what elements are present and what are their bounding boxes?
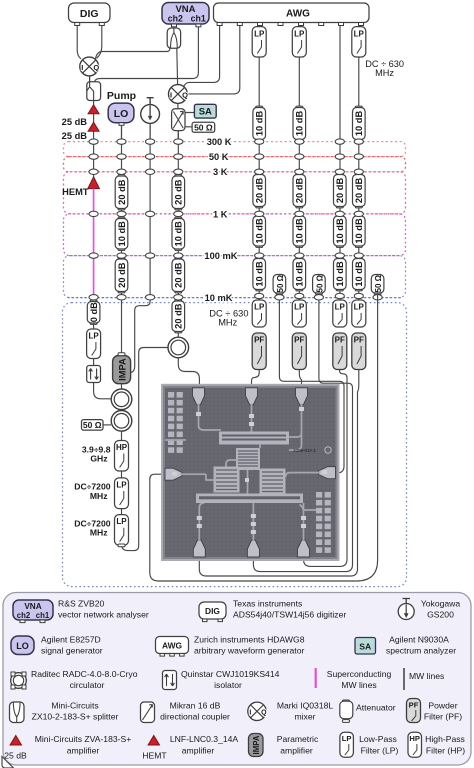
svg-text:GHz: GHz — [90, 454, 107, 464]
feedthrough stub x378 — [373, 295, 382, 300]
svg-text:20 dB: 20 dB — [174, 179, 184, 205]
svg-text:20 dB: 20 dB — [295, 178, 305, 204]
AWG box — [214, 3, 370, 26]
wire LP to isolator — [93, 359, 95, 366]
attenuator 10 dB x178 — [172, 217, 185, 250]
splitter S1 under VNA ch2 — [167, 28, 180, 48]
attenuator 10 dB x359 — [353, 257, 366, 291]
svg-text:50 K: 50 K — [209, 152, 229, 162]
wire LO to pump line — [121, 125, 123, 142]
SECTION: legend — [2, 593, 471, 768]
chip junction marks — [172, 407, 327, 534]
svg-text:10 dB: 10 dB — [174, 221, 184, 247]
wire VNA ch1 to splitter S2 right prong — [95, 26, 199, 82]
svg-text:LP: LP — [254, 303, 265, 312]
wire AWG foot1 to mixer M2 upper-right — [184, 26, 220, 88]
svg-text:MHz: MHz — [90, 528, 108, 538]
svg-text:PF: PF — [354, 336, 364, 345]
svg-text:10 dB: 10 dB — [255, 111, 265, 137]
amplifier A1 25 dB — [88, 105, 99, 114]
svg-text:100 mK: 100 mK — [204, 251, 237, 261]
svg-text:LO: LO — [16, 641, 29, 651]
svg-text:50 Ω: 50 Ω — [276, 274, 285, 292]
legend VNA icon — [13, 600, 53, 623]
legend IMPA icon — [249, 734, 264, 757]
wire PF c2 to top launcher t3 — [299, 370, 301, 389]
svg-text:10 dB: 10 dB — [335, 218, 345, 244]
svg-text:MHz: MHz — [375, 68, 394, 78]
wire AWG line c4 — [359, 26, 360, 301]
feedthroughs x122 — [117, 139, 126, 300]
svg-text:20 dB: 20 dB — [174, 262, 184, 288]
svg-text:50 Ω: 50 Ω — [83, 420, 102, 430]
chip launcher bottom b3 — [297, 540, 309, 557]
svg-text:50 Ω: 50 Ω — [374, 274, 383, 292]
svg-text:20 dB: 20 dB — [255, 178, 265, 204]
wire circulator C3 bottom to chip top launcher t1 — [178, 358, 199, 389]
attenuator 20 dB x122 — [115, 175, 128, 210]
svg-text:20 dB: 20 dB — [117, 262, 127, 288]
legend AWG icon — [156, 637, 189, 657]
legend HP icon — [408, 732, 422, 757]
SECTION: top instruments — [62, 3, 369, 142]
stage box 3K-1K — [64, 172, 406, 214]
svg-text:I: I — [170, 91, 172, 100]
mixer M2 (VNA IQ mixer) — [169, 85, 189, 104]
legend LP icon — [340, 732, 354, 757]
mixer M1 (DIG IQ mixer) — [80, 57, 100, 76]
svg-text:AWG: AWG — [162, 641, 182, 651]
svg-text:HP: HP — [116, 443, 128, 452]
legend mixer icon — [248, 702, 267, 720]
svg-text:I: I — [249, 710, 251, 717]
wire AWG line c1 — [258, 26, 260, 301]
chip launcher top t1 — [193, 388, 205, 405]
svg-text:Raditec RADC-4.0-8.0-Cryo: Raditec RADC-4.0-8.0-Cryo — [31, 669, 138, 679]
chip pad array top-left — [168, 392, 183, 453]
svg-text:25 dB: 25 dB — [62, 131, 88, 141]
svg-text:25 dB: 25 dB — [4, 751, 27, 761]
svg-text:VNA: VNA — [24, 602, 41, 611]
svg-text:MW lines: MW lines — [341, 680, 376, 690]
stage line 10 mK plate — [68, 297, 401, 299]
svg-text:amplifier: amplifier — [182, 746, 215, 756]
SECTION: columns — [62, 26, 404, 577]
svg-text:10 dB: 10 dB — [117, 221, 127, 247]
terminator 50 ohm x279 — [273, 274, 286, 294]
svg-text:LP: LP — [335, 303, 346, 312]
feedthrough stub x319 — [314, 295, 323, 300]
filter LP cold c1 — [252, 300, 266, 327]
svg-text:ch1: ch1 — [36, 611, 50, 620]
VNA box — [162, 3, 209, 27]
stage box 1K-100mK — [64, 214, 406, 256]
svg-text:10 dB: 10 dB — [295, 111, 305, 137]
svg-text:LNF-LNC0.3_14A: LNF-LNC0.3_14A — [170, 734, 239, 744]
legend isolator icon — [163, 671, 177, 690]
svg-text:3 K: 3 K — [213, 167, 228, 177]
IMPA parametric amplifier — [113, 353, 131, 384]
chip resonator bar — [219, 432, 289, 445]
svg-text:10 dB: 10 dB — [354, 261, 364, 287]
svg-text:Attenuator: Attenuator — [356, 703, 396, 713]
amplifier A2 25 dB — [88, 122, 99, 131]
svg-text:spectrum analyzer: spectrum analyzer — [386, 646, 456, 656]
svg-text:10 dB: 10 dB — [335, 261, 345, 287]
legend corner arrow — [2, 757, 14, 768]
svg-text:LP: LP — [254, 29, 265, 38]
svg-text:signal generator: signal generator — [41, 646, 103, 656]
svg-text:LP: LP — [88, 332, 99, 341]
wire AWG line c3 — [339, 26, 341, 301]
legend amplifier icon ZVA — [10, 736, 21, 746]
svg-text:directional coupler: directional coupler — [160, 712, 230, 722]
legend DIG icon — [199, 602, 226, 622]
svg-text:0 dB: 0 dB — [89, 302, 99, 322]
svg-text:LP: LP — [294, 303, 305, 312]
circulator C3 input line — [168, 337, 189, 358]
attenuator 10 dB x359 — [353, 215, 366, 248]
legend splitter icon — [10, 702, 25, 723]
svg-text:ch1: ch1 — [191, 14, 206, 24]
chip pad array bottom-right — [316, 492, 331, 553]
svg-text:MW lines: MW lines — [409, 671, 444, 681]
wire AWG line c2 — [298, 26, 300, 301]
svg-text:Pump: Pump — [107, 90, 136, 102]
svg-text:mixer: mixer — [294, 712, 315, 722]
svg-text:MHz: MHz — [90, 491, 108, 501]
svg-text:Marki IQ0318L: Marki IQ0318L — [277, 701, 334, 711]
wire splitter S2 to amplifier A1 — [93, 101, 95, 107]
svg-text:Powder: Powder — [428, 701, 457, 711]
svg-text:Q: Q — [182, 91, 188, 100]
chip launcher right — [319, 467, 336, 479]
chip launcher left — [165, 468, 182, 480]
svg-text:LP: LP — [116, 517, 127, 526]
SECTION: temperature stage boxes — [63, 142, 407, 587]
SECTION: cold stage components — [74, 293, 377, 581]
svg-text:Mini-Circuits: Mini-Circuits — [51, 701, 98, 711]
attenuator 20 dB x122 — [115, 258, 128, 293]
attenuator 0 dB x94 — [87, 300, 100, 324]
svg-text:IMPA: IMPA — [252, 735, 261, 754]
legend SA icon — [355, 638, 376, 655]
legend attenuator icon — [340, 700, 353, 722]
wire c3 PF to chip bottom launcher b3 — [304, 370, 348, 567]
stage box 100mK-10mK — [64, 256, 406, 298]
svg-text:50 Ω: 50 Ω — [194, 122, 213, 132]
svg-text:Agilent E8257D: Agilent E8257D — [41, 635, 101, 645]
circulator C2 — [111, 411, 132, 432]
svg-text:20 dB: 20 dB — [117, 179, 127, 205]
svg-text:Filter (LP): Filter (LP) — [361, 746, 399, 756]
directional coupler DC1 — [172, 109, 195, 131]
svg-text:PF: PF — [335, 336, 345, 345]
svg-text:Yokogawa: Yokogawa — [421, 599, 461, 609]
feedthroughs x150 — [146, 139, 155, 300]
filter PF cold c2 — [292, 333, 306, 370]
svg-text:ch2: ch2 — [168, 14, 183, 24]
svg-text:Q: Q — [261, 710, 267, 717]
terminator 50 ohm x378 — [371, 274, 384, 294]
attenuator 20 dB x299 — [293, 173, 306, 208]
DIG box — [69, 3, 111, 26]
svg-text:10 dB: 10 dB — [354, 218, 364, 244]
terminator 50 ohm x319 — [313, 274, 326, 294]
svg-text:LP: LP — [354, 29, 365, 38]
svg-text:amplifier: amplifier — [280, 746, 313, 756]
wire IMPA to circulator C1 — [121, 384, 123, 389]
svg-text:Agilent N9030A: Agilent N9030A — [389, 635, 449, 645]
legend MW line sample — [403, 668, 405, 690]
svg-text:10 dB: 10 dB — [295, 218, 305, 244]
svg-text:LP: LP — [342, 734, 352, 743]
wire LP1 to LP2 — [121, 509, 123, 515]
chip traces — [165, 404, 320, 541]
feedthroughs x94 — [89, 139, 98, 300]
feedthrough stub x279 — [275, 295, 284, 300]
svg-text:LP: LP — [354, 303, 365, 312]
legend circulator icon — [11, 672, 27, 689]
attenuator 20 dB x178 — [172, 175, 185, 210]
svg-text:Mikran 16 dB: Mikran 16 dB — [170, 701, 221, 711]
svg-text:10 dB: 10 dB — [255, 218, 265, 244]
wire coupler DC1 down to 300K — [177, 131, 179, 142]
svg-text:Quinstar CWJ1019KS414: Quinstar CWJ1019KS414 — [181, 669, 280, 679]
svg-text:10 dB: 10 dB — [354, 111, 364, 137]
50 ohm box top — [192, 122, 215, 132]
SECTION: feedthrough ellipses — [89, 139, 382, 300]
legend amplifier icon HEMT — [148, 736, 159, 746]
legend coupler icon — [141, 702, 155, 723]
wire HP to LP1 — [121, 471, 123, 478]
svg-text:20 dB: 20 dB — [354, 178, 364, 204]
svg-text:LO: LO — [114, 108, 129, 120]
attenuator 10 dB x259 — [253, 215, 266, 248]
attenuator 20 dB x359 — [353, 173, 366, 208]
svg-text:I: I — [81, 63, 83, 72]
filter LP cold c3 — [333, 300, 347, 327]
chip launcher bottom b1 — [193, 540, 205, 557]
svg-text:PF: PF — [254, 336, 264, 345]
svg-text:vector network analyser: vector network analyser — [58, 610, 149, 620]
chip launcher top t2 — [246, 388, 258, 405]
wire flux line — [130, 124, 150, 373]
wire terminator s2 line to chip bottom launcher b2 — [253, 292, 352, 572]
legend panel — [3, 593, 471, 766]
SECTION: attenuators — [87, 106, 384, 333]
wire mixer M1 to splitter S2 — [89, 76, 91, 82]
svg-text:ADS54j40/TSW14j56 digitizer: ADS54j40/TSW14j56 digitizer — [233, 610, 346, 620]
chip substrate frame — [161, 384, 340, 561]
svg-text:circulator: circulator — [70, 680, 105, 690]
wire chip left launcher to terminator s3 via under-chip run — [150, 293, 378, 581]
attenuator 10 dB x299 — [293, 106, 306, 141]
wire superconducting output line — [93, 189, 95, 302]
wire 50ohm to circulator C2 — [103, 424, 111, 426]
svg-text:LP: LP — [116, 481, 127, 490]
wire circulator C2 to HP — [121, 431, 123, 441]
svg-text:amplifier: amplifier — [67, 746, 100, 756]
svg-text:Filter (HP): Filter (HP) — [426, 746, 465, 756]
wire PF c1 to top launcher t2 — [252, 370, 260, 389]
svg-text:PF: PF — [409, 701, 419, 710]
svg-text:Parametric: Parametric — [277, 734, 319, 744]
svg-text:GS200: GS200 — [427, 610, 454, 620]
legend LO icon — [11, 636, 34, 655]
svg-text:LP: LP — [294, 29, 305, 38]
filter LP1 cold — [115, 478, 129, 509]
filter LP awg c4 — [352, 27, 366, 57]
svg-text:MHz: MHz — [218, 318, 237, 328]
wire amplifier A2 down to 300K — [93, 131, 95, 142]
svg-text:DIG: DIG — [80, 8, 99, 20]
filter LP output line — [87, 329, 101, 359]
SECTION: stage labels — [204, 137, 248, 328]
wire splitter S1 left leg to mixer M1 (LO feed) — [96, 48, 170, 59]
svg-text:Texas instruments: Texas instruments — [233, 599, 302, 609]
splitter S2 under mixer M1 — [87, 76, 101, 101]
attenuator 10 dB x259 — [253, 257, 266, 291]
feedthroughs x340 — [335, 139, 344, 299]
feedthroughs x299 — [295, 139, 304, 299]
wire GS200 to flux line — [149, 124, 151, 142]
wire amplifier A1 to amplifier A2 — [93, 114, 95, 124]
attenuator 10 dB x359 — [353, 106, 366, 141]
wire pump line — [121, 125, 123, 356]
svg-text:Q: Q — [93, 63, 99, 72]
chip feed bus — [196, 494, 303, 504]
feedthroughs x359 — [354, 139, 363, 299]
svg-text:50 Ω: 50 Ω — [315, 274, 324, 292]
svg-text:Low-Pass: Low-Pass — [359, 734, 397, 744]
filter PF cold c1 — [252, 333, 266, 370]
svg-text:Zurich instruments HDAWG8: Zurich instruments HDAWG8 — [194, 635, 305, 645]
filter LP2 cold — [115, 515, 129, 547]
LO box — [108, 103, 134, 125]
stage box sample space 10 mK — [63, 303, 407, 587]
50 ohm box cold — [82, 420, 104, 431]
svg-text:IMPA: IMPA — [117, 358, 127, 381]
SA box — [194, 104, 216, 118]
svg-text:HEMT: HEMT — [142, 751, 167, 761]
attenuator 10 dB x299 — [293, 257, 306, 291]
wire circulator C3 left port to output filter stack — [122, 348, 168, 551]
wire mixer M2 to coupler DC1 — [177, 104, 179, 110]
svg-text:SA: SA — [359, 642, 371, 652]
svg-text:1 K: 1 K — [213, 209, 228, 219]
wire AWG foot2 to mixer M2 right — [187, 26, 240, 94]
svg-text:R&S ZVB20: R&S ZVB20 — [58, 599, 105, 609]
svg-text:DIG: DIG — [205, 606, 220, 616]
svg-text:20 dB: 20 dB — [335, 178, 345, 204]
chip launcher bottom b2 — [247, 540, 259, 557]
isolator — [87, 366, 101, 383]
wire splitter S1 right leg to mixer M2 top — [176, 48, 179, 84]
svg-text:25 dB: 25 dB — [62, 117, 88, 127]
circulator C1 — [111, 389, 132, 410]
wire c4 PF to chip bottom launcher b1 — [199, 370, 358, 577]
legend superconducting line sample — [315, 668, 317, 688]
chip central qubit meander — [236, 448, 260, 470]
svg-text:Mini-Circuits ZVA-183-S+: Mini-Circuits ZVA-183-S+ — [35, 734, 132, 744]
attenuator 10 dB x340 — [334, 215, 347, 248]
filter HP — [115, 441, 129, 472]
wire circulator C1 to C2 — [121, 410, 123, 412]
svg-text:10 dB: 10 dB — [255, 261, 265, 287]
chip ground plane — [165, 388, 336, 557]
SECTION: bottom wires — [0, 0, 1, 1]
feedthroughs x178 — [174, 139, 183, 300]
svg-text:SA: SA — [199, 107, 212, 118]
svg-text:300 K: 300 K — [207, 137, 232, 147]
attenuator 20 dB x178 — [172, 300, 185, 333]
svg-text:ZX10-2-183-S+ splitter: ZX10-2-183-S+ splitter — [32, 712, 119, 722]
attenuator 10 dB x259 — [253, 106, 266, 141]
filter LP cold c4 — [352, 300, 366, 327]
wire terminator s1 line to chip right launcher — [279, 292, 344, 473]
svg-text:HP: HP — [409, 734, 420, 743]
attenuator 10 dB x299 — [293, 215, 306, 248]
feedthroughs x259 — [255, 139, 264, 299]
HEMT amplifier triangle — [88, 177, 100, 189]
svg-text:20 dB: 20 dB — [174, 303, 184, 329]
svg-text:Superconducting: Superconducting — [327, 669, 392, 679]
svg-text:arbitrary waveform generator: arbitrary waveform generator — [194, 646, 304, 656]
attenuator 10 dB x340 — [334, 257, 347, 291]
stage box 50K-3K — [64, 157, 406, 172]
legend Yokogawa icon — [398, 599, 414, 620]
attenuator 20 dB x178 — [172, 258, 185, 293]
legend PF icon — [407, 699, 421, 723]
filter PF cold c4 — [352, 333, 366, 370]
svg-text:Filter (PF): Filter (PF) — [424, 712, 462, 722]
filter PF cold c3 — [333, 333, 347, 370]
attenuator 20 dB x340 — [334, 173, 347, 208]
filter LP awg c1 — [252, 27, 266, 57]
svg-text:High-Pass: High-Pass — [425, 734, 465, 744]
filter LP awg c2 — [292, 27, 306, 57]
svg-text:HEMT: HEMT — [62, 187, 89, 197]
svg-text:PF: PF — [294, 336, 304, 345]
svg-text:10 dB: 10 dB — [295, 261, 305, 287]
wire output line 3K span — [93, 142, 95, 177]
attenuator 10 dB x122 — [115, 217, 128, 250]
attenuator 20 dB x259 — [253, 173, 266, 208]
chip right meander — [260, 469, 286, 495]
wire input line — [177, 131, 179, 338]
wire isolator to circulator C1 — [94, 383, 111, 399]
current source GS200 symbol — [141, 98, 160, 124]
svg-text:10 mK: 10 mK — [205, 293, 233, 303]
svg-text:ch2: ch2 — [17, 611, 31, 620]
svg-text:isolator: isolator — [214, 680, 242, 690]
stage box 300K-50K — [64, 142, 406, 157]
svg-text:2009-01A 1: 2009-01A 1 — [293, 448, 317, 453]
chip launcher top t3 — [295, 388, 307, 405]
filter LP cold c2 — [292, 300, 306, 327]
wire DIG right foot to mixer M1 — [97, 26, 102, 59]
wire output 0dB to LP — [93, 323, 95, 329]
svg-text:AWG: AWG — [286, 9, 310, 20]
chip left meander — [214, 467, 240, 493]
wire DIG left foot to mixer M1 — [77, 26, 81, 59]
